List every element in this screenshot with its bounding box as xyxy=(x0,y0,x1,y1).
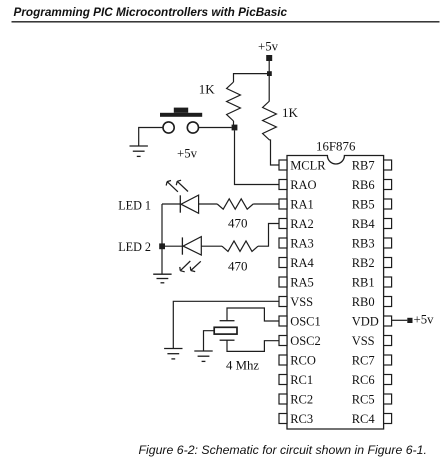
svg-text:+5v: +5v xyxy=(414,313,435,327)
node junction B (button/R1/RA0) xyxy=(232,125,238,131)
pushbutton S1 right contact xyxy=(187,122,198,133)
svg-text:470: 470 xyxy=(228,216,248,231)
wire R4 to RA2 pin xyxy=(258,224,279,247)
pushbutton S1 cap xyxy=(160,113,202,117)
IC U1 left pin 3 box (RA1) xyxy=(279,199,287,209)
svg-text:RC2: RC2 xyxy=(290,393,313,407)
+5v terminal square (VDD) xyxy=(407,318,412,323)
+5v terminal square (top) xyxy=(266,55,272,61)
LED D1 light arrow 1 xyxy=(167,182,178,192)
IC U1 left pin 5 box (RA3) xyxy=(279,238,287,248)
IC U1 right pin box (RC7) xyxy=(384,355,392,365)
svg-text:RB4: RB4 xyxy=(352,217,376,231)
wire OSC1 pin to crystal top xyxy=(227,308,279,321)
IC U1 right pin box (VSS) xyxy=(384,336,392,346)
svg-text:RC3: RC3 xyxy=(290,412,313,426)
svg-text:MCLR: MCLR xyxy=(290,159,326,173)
IC U1 right pin box (RB2) xyxy=(384,258,392,268)
wire VDD pin to +5v terminal xyxy=(392,319,408,321)
IC U1 right pin box (RC6) xyxy=(384,375,392,385)
svg-text:RC5: RC5 xyxy=(352,393,375,407)
svg-text:RCO: RCO xyxy=(290,354,316,368)
wire button right contact to node B xyxy=(199,127,232,129)
svg-text:RB6: RB6 xyxy=(352,178,375,192)
wire junction A down to R2 top xyxy=(268,76,270,101)
svg-text:RB2: RB2 xyxy=(352,256,375,270)
svg-text:RB7: RB7 xyxy=(352,159,375,173)
IC U1 right pin box (VDD) xyxy=(384,316,392,326)
svg-text:RC4: RC4 xyxy=(352,412,376,426)
IC U1 left pin 7 box (RA5) xyxy=(279,277,287,287)
crystal X1 top plate xyxy=(220,320,235,322)
IC U1 left pin 12 box (RC1) xyxy=(279,375,287,385)
LED D1 cathode bar xyxy=(179,195,181,212)
IC U1 right pin box (RB6) xyxy=(384,180,392,190)
svg-text:4 Mhz: 4 Mhz xyxy=(226,359,259,373)
resistor R4 470 xyxy=(222,241,258,251)
IC U1 left pin 10 box (OSC2) xyxy=(279,336,287,346)
crystal X1 body xyxy=(214,327,237,334)
svg-text:VSS: VSS xyxy=(352,334,375,348)
IC U1 left pin 6 box (RA4) xyxy=(279,258,287,268)
crystal X1 bottom plate xyxy=(220,339,235,341)
svg-text:RB0: RB0 xyxy=(352,295,375,309)
svg-text:RB3: RB3 xyxy=(352,237,375,251)
wire R2 bottom to MCLR pin xyxy=(270,140,280,165)
LED D2 light arrow 1 xyxy=(180,261,190,271)
resistor R1 1K (left) xyxy=(227,82,241,121)
wire R3 to RA1 pin xyxy=(253,203,279,205)
svg-text:RC1: RC1 xyxy=(290,373,313,387)
wire node C to LED D2 cathode xyxy=(165,245,182,247)
svg-text:1K: 1K xyxy=(199,82,216,97)
wire LED D2 anode to R4 xyxy=(201,245,222,247)
IC U1 right pin box (RC5) xyxy=(384,394,392,404)
IC U1 left pin 1 box (MCLR) xyxy=(279,160,287,170)
wire button left contact to ground xyxy=(139,128,163,146)
IC U1 16F876 body xyxy=(287,156,384,430)
IC U1 right pin box (RC4) xyxy=(384,414,392,424)
LED D1 triangle xyxy=(181,195,199,213)
IC U1 right pin box (RB7) xyxy=(384,160,392,170)
IC U1 left pin 14 box (RC3) xyxy=(279,414,287,424)
wire R1 bottom to node B xyxy=(233,121,235,125)
svg-text:Programming PIC Microcontrolle: Programming PIC Microcontrollers with Pi… xyxy=(14,6,288,19)
LED D2 light arrow 2 xyxy=(191,261,201,270)
svg-text:RB1: RB1 xyxy=(352,276,375,290)
svg-text:RAO: RAO xyxy=(290,178,316,192)
wire bus to LED D1 cathode xyxy=(162,203,180,205)
IC U1 right pin box (RB1) xyxy=(384,277,392,287)
IC U1 left pin 11 box (RCO) xyxy=(279,355,287,365)
wire VSS pin to ground xyxy=(173,301,279,348)
IC U1 left pin 4 box (RA2) xyxy=(279,219,287,229)
svg-text:LED 2: LED 2 xyxy=(118,240,151,254)
wire node B down to RAO pin xyxy=(235,130,280,184)
IC U1 left pin 9 box (OSC1) xyxy=(279,316,287,326)
svg-text:VSS: VSS xyxy=(290,295,313,309)
svg-text:OSC1: OSC1 xyxy=(290,315,321,329)
svg-text:RC7: RC7 xyxy=(352,354,375,368)
svg-text:470: 470 xyxy=(228,259,248,274)
wire crystal case to ground xyxy=(204,331,215,351)
wire junction A to R1 top xyxy=(234,74,268,82)
IC U1 right pin box (RB0) xyxy=(384,297,392,307)
LED D2 triangle xyxy=(183,237,201,255)
resistor R3 470 xyxy=(217,199,253,209)
svg-text:LED 1: LED 1 xyxy=(118,198,151,212)
resistor R2 1K (right) xyxy=(263,101,277,140)
ground under button xyxy=(130,145,148,147)
svg-text:RA5: RA5 xyxy=(290,276,314,290)
ground for VSS xyxy=(164,348,182,350)
LED D1 light arrow 2 xyxy=(177,181,188,191)
IC U1 right pin box (RB5) xyxy=(384,199,392,209)
wire LED D1 anode to R3 xyxy=(199,203,218,205)
svg-text:RB5: RB5 xyxy=(352,198,375,212)
svg-text:16F876: 16F876 xyxy=(316,139,356,153)
svg-text:RC6: RC6 xyxy=(352,373,375,387)
pushbutton S1 left contact xyxy=(163,122,174,133)
svg-text:RA2: RA2 xyxy=(290,217,314,231)
svg-text:+5v: +5v xyxy=(258,40,279,54)
header rule xyxy=(12,21,440,23)
svg-text:RA1: RA1 xyxy=(290,198,314,212)
svg-text:1K: 1K xyxy=(282,105,299,120)
wire +5v terminal to junction xyxy=(268,61,270,72)
LED D2 cathode bar xyxy=(181,237,183,254)
svg-text:+5v: +5v xyxy=(177,146,198,160)
IC U1 right pin box (RB4) xyxy=(384,219,392,229)
IC U1 right pin box (RB3) xyxy=(384,238,392,248)
node junction C (bus/LED2) xyxy=(159,243,165,249)
svg-text:RA4: RA4 xyxy=(290,256,314,270)
svg-text:Figure 6-2: Schematic for circ: Figure 6-2: Schematic for circuit shown … xyxy=(139,443,427,457)
svg-text:RA3: RA3 xyxy=(290,237,314,251)
node junction A (+5v rail) xyxy=(267,71,272,76)
ground under LED bus xyxy=(153,273,171,275)
ground for crystal xyxy=(194,350,212,352)
IC U1 left pin 8 box (VSS) xyxy=(279,297,287,307)
IC U1 left pin 2 box (RAO) xyxy=(279,180,287,190)
svg-text:OSC2: OSC2 xyxy=(290,334,321,348)
wire crystal bottom to OSC2 pin xyxy=(227,340,279,351)
IC U1 left pin 13 box (RC2) xyxy=(279,394,287,404)
wire ground bus vertical xyxy=(161,204,163,274)
svg-text:VDD: VDD xyxy=(352,315,379,329)
